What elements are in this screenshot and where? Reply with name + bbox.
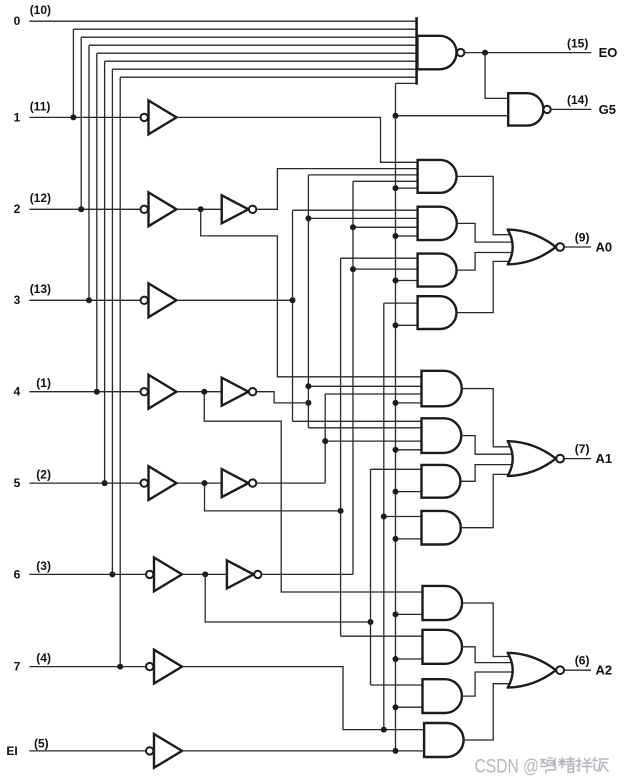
wire input 7 line (29, 666, 146, 668)
junction N4 feed (305, 400, 311, 406)
wire input 5 line (29, 482, 140, 484)
junction E/g8 (393, 536, 399, 542)
junction input 1 riser (70, 114, 76, 120)
svg-text:(11): (11) (30, 99, 51, 113)
buffer U2 (input bubble) (141, 206, 148, 213)
wire horizontal run input 2 to NAND bar (81, 36, 416, 38)
junction N6/g3 (350, 266, 356, 272)
wire net N6 vertical rail (352, 181, 354, 574)
wire net E (EI buffer output line to gate g12) (182, 750, 424, 752)
AND gate g11 (423, 679, 462, 713)
svg-text:0: 0 (14, 14, 21, 28)
buffer U5 (input bubble) (141, 479, 148, 486)
wire input 6 line (29, 573, 146, 575)
wire g2 output to NOR input (457, 223, 516, 242)
wire buffer2 output to inverter2 (177, 208, 222, 210)
NAND gate U-G5 body (508, 93, 543, 125)
wire net N6 (inverter6 output to rail) (262, 573, 354, 575)
wire net N6 to gate g1 (353, 180, 418, 182)
junction input 5 riser (102, 480, 108, 486)
buffer U1 (input bubble) (141, 114, 148, 121)
inverter V2 (222, 195, 249, 223)
wire net B5 to gate g3 (341, 257, 418, 259)
junction N5/g6 (322, 438, 328, 444)
junction B7 rail bottom (381, 727, 387, 733)
junction E/g10 (393, 656, 399, 662)
AND gate g12 (424, 723, 464, 757)
wire net N5 to gate g5 (325, 393, 421, 395)
buffer UEI (input bubble) (146, 747, 153, 754)
junction input 7 riser (117, 664, 123, 670)
svg-text:(12): (12) (30, 191, 51, 205)
wire net N4 (inverter4 output jog) (256, 392, 308, 403)
junction input 6 riser (109, 571, 115, 577)
svg-text:A1: A1 (596, 451, 613, 466)
wire g1 output to NOR input (457, 176, 510, 234)
svg-text:(9): (9) (575, 231, 590, 245)
wire g6 output to NOR input (461, 436, 517, 455)
junction B5 rail (338, 508, 344, 514)
wire input 0 line to NAND bar (29, 20, 416, 22)
wire g4 output to NOR input (457, 261, 510, 312)
AND gate g9 (423, 586, 463, 620)
junction B6 rail (368, 619, 374, 625)
wire g5 output to NOR input (461, 389, 510, 447)
wire input 2 line (29, 208, 140, 210)
junction E/g5 (393, 400, 399, 406)
AND gate g10 (423, 630, 463, 664)
wire net B5 (tap jog to rail) (205, 483, 341, 511)
wire net B3 to gate g2 (293, 209, 418, 211)
AND gate g3 (418, 254, 457, 287)
junction B6 tap (202, 571, 208, 577)
junction E/G5 NAND (393, 113, 399, 119)
wire net B6 (tap jog to rail) (205, 574, 370, 622)
wire net N5 vertical rail (324, 394, 326, 483)
svg-text:(13): (13) (30, 282, 51, 296)
AND gate g2 (418, 207, 457, 240)
inverter V4 (222, 378, 249, 406)
wire riser input 6 to top NAND run (111, 69, 113, 574)
junction B2 tap (198, 206, 204, 212)
buffer U7 (input bubble) (146, 663, 153, 670)
wire input 1 line (29, 116, 140, 118)
wire net N4 to gate g5 (308, 385, 421, 387)
wire g9 output to NOR input (462, 603, 510, 657)
junction N4/g2 (305, 215, 311, 221)
wire net B7 vertical rail (383, 303, 385, 729)
wire net B7 to gate g4 (384, 302, 418, 304)
AND gate g5 (422, 371, 462, 407)
wire buffer6 output to inverter6 (182, 573, 227, 575)
wire net B3 (buffer3 output) (177, 299, 293, 301)
wire net E to g11 (396, 706, 423, 708)
wire riser input 4 to top NAND run (96, 53, 98, 392)
watermark char jing (essence) (559, 758, 575, 773)
junction B7/g8 (381, 514, 387, 520)
wire net N4 to gate g2 (308, 217, 417, 219)
wire riser input 7 to top NAND run (119, 77, 121, 666)
svg-text:(1): (1) (36, 376, 51, 390)
wire A0 output line (564, 246, 591, 248)
buffer U3 (input bubble) (141, 297, 148, 304)
junction E/g6 (393, 447, 399, 453)
buffer U4 (input bubble) (141, 388, 148, 395)
junction E/g7 (393, 489, 399, 495)
wire horizontal run input 5 to NAND bar (105, 60, 417, 62)
wire net E to g10 (396, 658, 423, 660)
AND gate g8 (422, 511, 461, 545)
svg-text:CSDN @: CSDN @ (475, 757, 540, 778)
junction E/g2 (393, 233, 399, 239)
wire net B7 (buffer7 output jog) (182, 667, 424, 730)
wire net E to g6 (396, 449, 422, 451)
wire net E to g4 (396, 324, 418, 326)
wire horizontal run input 7 to NAND bar (120, 76, 416, 78)
junction N6/g2 (350, 224, 356, 230)
AND gate g4 (418, 296, 457, 329)
AND gate g1 (418, 160, 457, 193)
wire riser input 5 to top NAND run (104, 61, 106, 483)
svg-text:1: 1 (14, 110, 21, 124)
wire horizontal run input 1 to NAND bar (73, 28, 416, 30)
wire g12 output to NOR input (463, 684, 509, 740)
watermark char ji (chicken) (541, 758, 556, 773)
wire A2 output line (564, 669, 591, 671)
wire net B6 to gate g11 (371, 684, 423, 686)
wire net N5 (inverter5 output to rail) (256, 482, 325, 484)
NOR gate U-A0 (508, 230, 556, 265)
junction input 2 riser (78, 206, 84, 212)
wire net B3 vertical rail (292, 210, 294, 421)
NOR gate U-A1 (508, 441, 556, 476)
wire input 4 line (29, 391, 140, 393)
wire input 3 line (29, 299, 140, 301)
wire input EI line (29, 750, 146, 752)
wire net E to g2 (396, 235, 418, 237)
svg-text:(7): (7) (575, 442, 590, 456)
wire net N6 to gate g2 (353, 226, 418, 228)
wire G5 output line (551, 108, 592, 110)
wire buffer4 output to inverter4 (177, 391, 222, 393)
wire horizontal run input 3 to NAND bar (89, 44, 417, 46)
wire net E to g3 (396, 280, 418, 282)
wire net E vertical rail (395, 83, 397, 751)
svg-text:(10): (10) (30, 3, 51, 17)
wire net B5 vertical rail (340, 258, 342, 636)
NAND gate U-EO body (417, 36, 456, 70)
wire net E to g8 (396, 538, 422, 540)
junction E/g3 (393, 278, 399, 284)
wire g8 output to NOR input (461, 474, 510, 527)
inverter V5 (222, 469, 249, 497)
junction E rail / EI line (393, 748, 399, 754)
junction input 4 riser (94, 389, 100, 395)
junction B5 tap (202, 480, 208, 486)
svg-text:A0: A0 (596, 239, 613, 254)
AND gate g6 (422, 418, 462, 453)
wire buffer5 output to inverter5 (177, 482, 222, 484)
wire riser input 2 to top NAND run (80, 37, 82, 209)
junction E/g9 (393, 611, 399, 617)
junction B4 tap (201, 389, 207, 395)
inverter V6 (227, 560, 254, 588)
wire EO branch to G5 NAND input 1 (485, 53, 508, 99)
junction input 3 riser (86, 297, 92, 303)
svg-text:(4): (4) (36, 651, 51, 665)
NAND gate U-EO input bar (415, 17, 418, 85)
wire net B4 (tap jog to gate g9) (204, 392, 422, 592)
wire net B6 to gate g7 (371, 468, 422, 470)
svg-text:2: 2 (14, 202, 21, 216)
wire net N4 to gate g1 (308, 174, 417, 176)
wire net N4 vertical rail (307, 175, 309, 428)
wire net N6 to gate g3 (353, 268, 418, 270)
NOR gate U-A2 (508, 653, 556, 688)
wire net E to g9 (396, 613, 423, 615)
svg-text:(5): (5) (34, 737, 49, 751)
junction EO branch (482, 50, 488, 56)
svg-text:(2): (2) (36, 468, 51, 482)
watermark char fan (rice) (593, 758, 608, 772)
wire horizontal run input 6 to NAND bar (112, 68, 416, 70)
wire g7 output to NOR input (461, 465, 517, 482)
wire net B3 to gate g6 (293, 420, 422, 422)
wire g3 output to NOR input (457, 253, 516, 271)
wire net B7 to gate g8 (384, 516, 422, 518)
svg-text:(15): (15) (567, 36, 588, 50)
NAND gate U-G5 output bubble (543, 106, 550, 113)
wire riser input 3 to top NAND run (88, 45, 90, 300)
wire net N5 to gate g6 (325, 440, 421, 442)
junction N4/g5 (305, 383, 311, 389)
wire EO output line (464, 52, 591, 54)
wire net E top corner to NAND bar (396, 82, 417, 84)
svg-text:6: 6 (14, 567, 21, 581)
junction E/g1 (393, 185, 399, 191)
svg-text:G5: G5 (599, 102, 616, 117)
wire g10 output to NOR input (462, 647, 517, 663)
junction B3 rail / input3 (290, 297, 296, 303)
watermark char ban (mix) (576, 758, 592, 773)
svg-text:(14): (14) (567, 93, 588, 107)
NAND gate U-EO output bubble (457, 49, 464, 56)
svg-text:(3): (3) (36, 559, 51, 573)
AND gate g7 (422, 465, 461, 498)
svg-text:7: 7 (14, 660, 21, 674)
svg-text:EO: EO (599, 45, 618, 60)
junction E/g11 (393, 704, 399, 710)
wire net B5 to gate g10 (341, 635, 423, 637)
wire horizontal run input 4 to NAND bar (97, 52, 417, 54)
svg-text:A2: A2 (596, 663, 613, 678)
svg-text:EI: EI (6, 744, 17, 758)
svg-text:5: 5 (14, 476, 21, 490)
wire net E to G5 NAND (396, 115, 509, 117)
wire A1 output line (564, 458, 591, 460)
svg-text:3: 3 (14, 293, 21, 307)
wire net E to g1 (396, 187, 418, 189)
svg-text:(6): (6) (575, 654, 590, 668)
junction E/g4 (393, 322, 399, 328)
wire net N2 (inverter2 output to gate g1) (256, 169, 417, 210)
svg-text:4: 4 (14, 385, 21, 399)
wire net B1 (buffer1 output to gate g1) (177, 117, 418, 162)
wire net E to g7 (396, 491, 422, 493)
wire net B2 (tap to gate g5) (201, 209, 422, 376)
wire riser input 1 to top NAND run (72, 29, 74, 117)
wire g11 output to NOR input (462, 672, 517, 696)
wire net B6 vertical rail (370, 469, 372, 685)
buffer U6 (input bubble) (146, 571, 153, 578)
wire net N4 to gate g6 (308, 427, 421, 429)
wire net E to g5 (396, 402, 422, 404)
